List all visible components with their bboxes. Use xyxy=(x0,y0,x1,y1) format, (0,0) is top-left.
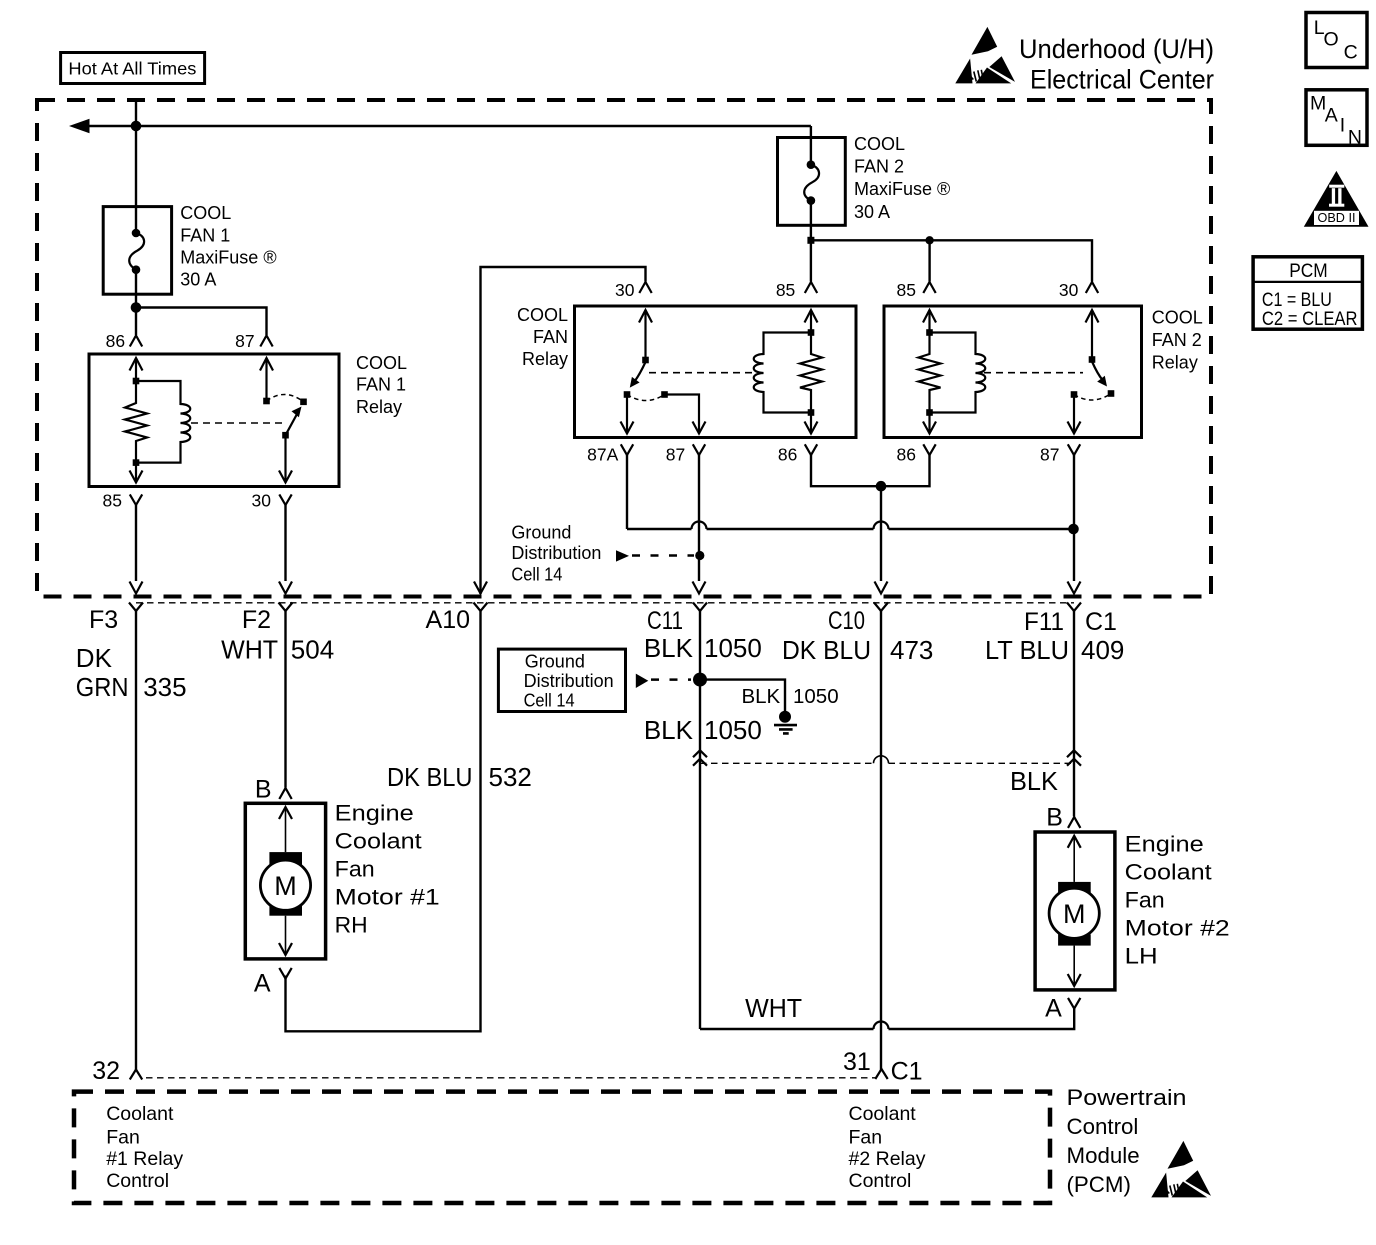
svg-text:85: 85 xyxy=(897,280,916,300)
svg-text:Distribution: Distribution xyxy=(524,671,614,691)
svg-text:86: 86 xyxy=(778,445,797,465)
svg-text:DK BLU: DK BLU xyxy=(387,762,473,792)
motor Engine Coolant Fan Motor #2 LH xyxy=(1035,804,1230,1023)
svg-text:LT BLU: LT BLU xyxy=(985,635,1069,665)
svg-text:F11: F11 xyxy=(1024,608,1064,636)
svg-text:Motor #2: Motor #2 xyxy=(1125,915,1230,940)
svg-text:85: 85 xyxy=(776,280,795,300)
relay1 switch (pin 87-30) xyxy=(260,358,307,483)
wire: fuse1 output junction xyxy=(131,270,267,335)
svg-text:COOL: COOL xyxy=(854,134,905,154)
svg-text:FAN: FAN xyxy=(533,327,568,347)
ESD symbol (underhood electrical center) xyxy=(955,27,1015,84)
svg-text:DK BLU: DK BLU xyxy=(782,635,871,665)
relay COOL FAN Relay (middle) xyxy=(517,305,856,438)
wire F11 LT BLU 409 xyxy=(985,611,1124,816)
Underhood electrical center dashed box xyxy=(37,100,1211,597)
wire F3 DK GRN 335 xyxy=(76,611,187,1070)
svg-text:FAN 2: FAN 2 xyxy=(854,157,904,177)
fuse COOL FAN 2 MaxiFuse 30 A xyxy=(778,126,951,225)
svg-text:COOL: COOL xyxy=(180,203,231,223)
svg-text:Cell 14: Cell 14 xyxy=(511,564,562,584)
ESD symbol (PCM) xyxy=(1151,1141,1211,1198)
svg-text:1050: 1050 xyxy=(704,715,762,745)
svg-text:504: 504 xyxy=(291,635,334,665)
PCM connector row dashed line xyxy=(146,1077,875,1079)
svg-text:32: 32 xyxy=(92,1057,120,1085)
svg-text:87: 87 xyxy=(1040,445,1059,465)
relay2 switch (pin 30-87) xyxy=(1068,310,1115,434)
wire 86 pins to C10 row xyxy=(811,455,930,581)
svg-text:Control: Control xyxy=(849,1170,912,1192)
node 32 (PCM) xyxy=(92,1057,142,1085)
svg-text:MaxiFuse ®: MaxiFuse ® xyxy=(180,247,276,267)
PCM connector legend box xyxy=(1253,257,1362,330)
svg-text:87: 87 xyxy=(235,331,254,351)
svg-text:C1: C1 xyxy=(1085,608,1117,636)
wire relay2 87 to F11 row xyxy=(1073,455,1075,581)
ground distribution reference (harness) xyxy=(498,649,691,711)
wire: top power feed bus xyxy=(69,100,811,233)
svg-text:A: A xyxy=(254,970,271,998)
middle relay switch (pin 30-87A-87) xyxy=(621,310,706,434)
ground distribution reference (in box) xyxy=(511,523,694,585)
svg-text:PCM: PCM xyxy=(1289,260,1328,282)
svg-text:85: 85 xyxy=(103,491,122,511)
relay2 coil (pin 85-86) xyxy=(919,310,986,434)
svg-text:409: 409 xyxy=(1081,635,1124,665)
svg-text:Distribution: Distribution xyxy=(511,543,601,563)
svg-text:C1: C1 xyxy=(891,1057,923,1085)
relay COOL FAN 2 Relay xyxy=(884,306,1203,438)
node 85 terminal (relay1) xyxy=(103,491,143,511)
svg-text:BLK: BLK xyxy=(644,633,694,663)
svg-text:Engine: Engine xyxy=(1125,831,1204,856)
svg-text:COOL: COOL xyxy=(1152,308,1203,328)
ground symbol xyxy=(774,711,797,734)
svg-text:#2 Relay: #2 Relay xyxy=(849,1148,926,1170)
svg-text:86: 86 xyxy=(106,331,125,351)
svg-text:GRN: GRN xyxy=(76,672,129,702)
svg-text:Coolant: Coolant xyxy=(335,828,423,853)
svg-text:FAN 1: FAN 1 xyxy=(356,374,406,394)
svg-text:WHT: WHT xyxy=(745,993,802,1023)
svg-text:Electrical Center: Electrical Center xyxy=(1030,65,1214,95)
fuse COOL FAN 1 MaxiFuse 30 A xyxy=(103,203,276,294)
relay COOL FAN 1 Relay xyxy=(89,353,407,487)
svg-text:1050: 1050 xyxy=(704,633,762,663)
svg-text:M: M xyxy=(1063,899,1086,929)
PCM pin 32 function text xyxy=(106,1103,183,1192)
svg-text:Motor #1: Motor #1 xyxy=(335,884,440,909)
svg-text:Fan: Fan xyxy=(106,1126,140,1148)
node 87A terminal xyxy=(587,444,633,464)
svg-text:Coolant: Coolant xyxy=(106,1103,174,1125)
svg-text:COOL: COOL xyxy=(517,305,568,325)
wire F2 WHT 504 xyxy=(221,611,334,788)
svg-text:Coolant: Coolant xyxy=(849,1103,917,1125)
svg-text:(PCM): (PCM) xyxy=(1067,1172,1131,1197)
svg-text:Cell 14: Cell 14 xyxy=(524,691,575,711)
svg-text:Relay: Relay xyxy=(522,349,568,369)
svg-text:O: O xyxy=(1324,28,1339,50)
wire branch to ground G BLK 1050 xyxy=(700,680,839,717)
svg-text:31: 31 xyxy=(843,1048,871,1076)
node 86 terminal (relay2) xyxy=(897,444,936,464)
middle relay coil (pin 85-86) xyxy=(754,310,822,434)
wire 87 (middle) to C11 row xyxy=(695,455,704,581)
svg-text:I: I xyxy=(1340,115,1345,137)
wire motor2 A WHT to C11 column xyxy=(700,993,1074,1029)
svg-text:335: 335 xyxy=(143,672,186,702)
wire relay1 30 to F2 row xyxy=(284,505,286,581)
svg-text:FAN 1: FAN 1 xyxy=(180,226,230,246)
svg-text:Ground: Ground xyxy=(511,523,571,543)
svg-text:Control: Control xyxy=(1067,1114,1139,1139)
svg-text:473: 473 xyxy=(890,635,933,665)
wire 87A to F11 column xyxy=(627,455,1079,534)
node 85 terminal (relay2) xyxy=(897,280,936,300)
svg-text:Powertrain: Powertrain xyxy=(1067,1085,1187,1110)
wire: fuse2 output distribution to relays xyxy=(807,201,1092,282)
node 31 C1 (PCM) xyxy=(843,1048,923,1085)
wire relay1 85 to F3 row xyxy=(135,505,137,581)
relay1 coil (pin 86-85) xyxy=(125,358,190,483)
svg-text:Coolant: Coolant xyxy=(1125,859,1213,884)
node 30 terminal (relay1) xyxy=(252,491,292,511)
svg-text:C: C xyxy=(1344,42,1358,64)
svg-text:1050: 1050 xyxy=(793,685,839,708)
svg-text:OBD II: OBD II xyxy=(1318,211,1356,225)
node 87 terminal (middle relay bottom) xyxy=(666,444,705,464)
svg-text:C10: C10 xyxy=(828,607,865,635)
svg-text:30: 30 xyxy=(252,491,272,511)
svg-text:BLK: BLK xyxy=(644,715,694,745)
svg-text:N: N xyxy=(1348,126,1362,148)
LOC symbol box xyxy=(1306,13,1367,68)
svg-text:C2 = CLEAR: C2 = CLEAR xyxy=(1262,308,1358,330)
node 87 terminal (relay1) xyxy=(235,331,273,351)
svg-text:#1 Relay: #1 Relay xyxy=(106,1148,183,1170)
wire C11 BLK 1050 xyxy=(644,611,762,1029)
header text: Underhood (U/H) Electrical Center xyxy=(1019,34,1214,95)
relay2 coil-switch dashed link xyxy=(984,372,1083,374)
svg-text:Relay: Relay xyxy=(356,397,402,417)
svg-text:87A: 87A xyxy=(587,445,618,465)
svg-text:RH: RH xyxy=(335,912,368,937)
node 86 terminal (relay1) xyxy=(106,331,143,351)
svg-text:LH: LH xyxy=(1125,943,1158,968)
svg-text:B: B xyxy=(1046,804,1063,832)
svg-text:Ground: Ground xyxy=(525,652,585,672)
svg-text:M: M xyxy=(274,871,297,901)
svg-text:30: 30 xyxy=(615,280,635,300)
motor Engine Coolant Fan Motor #1 RH xyxy=(245,775,439,997)
svg-text:COOL: COOL xyxy=(356,353,407,373)
svg-text:Fan: Fan xyxy=(335,856,375,881)
OBD II symbol triangle xyxy=(1304,171,1369,227)
svg-text:87: 87 xyxy=(666,445,685,465)
PCM pin 31 function text xyxy=(849,1103,926,1192)
Powertrain Control Module dashed box xyxy=(74,1092,1050,1203)
svg-text:532: 532 xyxy=(489,762,532,792)
svg-text:BLK: BLK xyxy=(741,685,780,708)
svg-text:Fan: Fan xyxy=(1125,887,1165,912)
node 30 terminal (middle relay) xyxy=(615,280,652,300)
svg-text:Control: Control xyxy=(106,1170,169,1192)
wire C10 DK BLU 473 to PCM 31 xyxy=(782,611,933,1070)
svg-text:F3: F3 xyxy=(89,606,118,634)
in-line connector row (UH center to harness) xyxy=(129,603,1081,612)
svg-text:WHT: WHT xyxy=(221,635,278,665)
svg-text:DK: DK xyxy=(76,643,113,673)
node 30 terminal (relay2) xyxy=(1059,280,1098,300)
svg-text:30: 30 xyxy=(1059,280,1079,300)
relay1 coil-switch dashed link xyxy=(191,422,283,424)
svg-text:30 A: 30 A xyxy=(180,269,216,289)
connector row arrows into UH bottom edge xyxy=(130,582,1081,594)
svg-text:Underhood (U/H): Underhood (U/H) xyxy=(1019,34,1214,64)
node 85 terminal (middle relay) xyxy=(776,280,817,300)
svg-text:MaxiFuse ®: MaxiFuse ® xyxy=(854,179,950,199)
middle relay coil-switch dashed link xyxy=(649,372,756,374)
in-line connector (lower, C11/F11 pass-through) xyxy=(693,750,1081,765)
svg-text:F2: F2 xyxy=(242,606,271,634)
svg-text:Hot At All Times: Hot At All Times xyxy=(68,59,196,79)
svg-text:86: 86 xyxy=(897,445,916,465)
wire A10 DK BLU 532 xyxy=(286,611,532,1031)
Powertrain Control Module (PCM) label xyxy=(1067,1085,1187,1197)
svg-text:Engine: Engine xyxy=(335,800,414,825)
svg-text:FAN 2: FAN 2 xyxy=(1152,330,1202,350)
node 87 terminal (relay2) xyxy=(1040,444,1080,464)
Hot At All Times box xyxy=(61,53,205,84)
svg-text:Module: Module xyxy=(1067,1143,1140,1168)
wire: A10 riser to relay pin 30 xyxy=(481,267,646,594)
svg-text:B: B xyxy=(255,775,272,803)
svg-text:A10: A10 xyxy=(426,606,470,634)
svg-text:C11: C11 xyxy=(647,607,683,635)
svg-text:BLK: BLK xyxy=(1010,766,1059,796)
svg-text:A: A xyxy=(1045,994,1062,1022)
MAIN symbol box xyxy=(1306,90,1367,149)
svg-text:30 A: 30 A xyxy=(854,202,890,222)
node 86 terminal (middle relay) xyxy=(778,444,817,464)
svg-text:Fan: Fan xyxy=(849,1126,883,1148)
svg-text:Relay: Relay xyxy=(1152,353,1198,373)
svg-text:A: A xyxy=(1325,105,1338,127)
